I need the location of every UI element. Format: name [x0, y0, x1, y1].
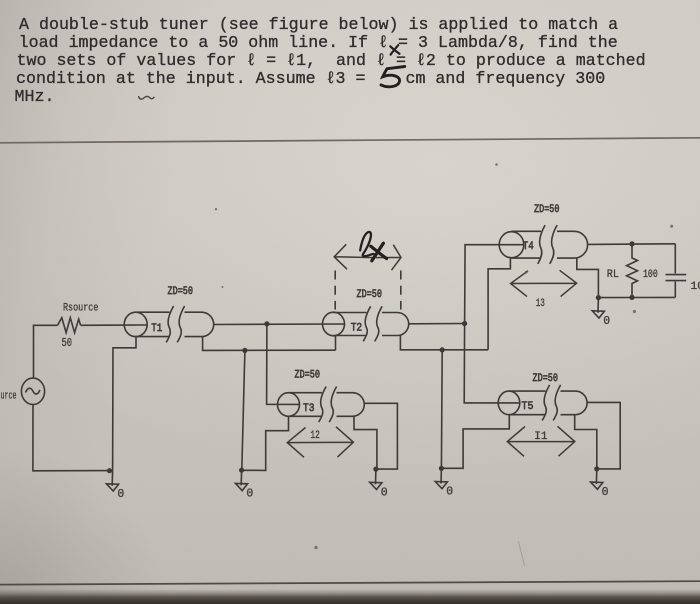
- svg-text:RL: RL: [607, 269, 619, 281]
- wire T4 to load: [588, 243, 676, 246]
- wire T3 ground lead bottom-left: [244, 416, 289, 470]
- dimension arrow l1: [507, 426, 575, 456]
- wire T2 ground lead bottom-right: [400, 335, 488, 350]
- wire T1 ground lead bottom-left: [113, 337, 136, 471]
- ac source Vsource: [21, 378, 44, 404]
- svg-text:ZD=50: ZD=50: [534, 204, 560, 216]
- wire T1 to T2: [214, 323, 345, 326]
- transmission line T4: [499, 225, 587, 264]
- wire T2 to node B: [409, 323, 465, 325]
- junction load bottom left: [596, 295, 601, 300]
- dimension arrow l3: [511, 270, 577, 296]
- node B junction: [462, 321, 467, 326]
- wire T3 ground lead bottom-right: [354, 416, 377, 469]
- wire node A down to T3: [267, 324, 300, 405]
- handwritten squiggle below line 4: [139, 96, 154, 99]
- dimension arrow l2: [287, 427, 353, 458]
- wire resistor to T1: [81, 324, 147, 326]
- handwritten subscript x in line 2: [390, 45, 399, 54]
- wire load bottom: [598, 296, 675, 298]
- svg-text:T2: T2: [351, 323, 363, 335]
- junction above ground G4: [440, 347, 445, 352]
- dashed extent line left of lx: [334, 271, 336, 310]
- dimension arrow lx right head: [376, 245, 401, 270]
- svg-text:ZD=50: ZD=50: [357, 289, 383, 301]
- junction at ground G3: [373, 467, 378, 472]
- svg-text:100: 100: [643, 269, 658, 281]
- junction at ground G5: [594, 466, 599, 471]
- svg-text:0: 0: [446, 486, 453, 499]
- transmission line T3: [278, 387, 365, 423]
- junction above ground G2: [242, 348, 247, 353]
- svg-text:T5: T5: [522, 401, 534, 413]
- wire T5 ground lead bottom-left: [441, 415, 509, 468]
- svg-text:ZD=50: ZD=50: [168, 286, 194, 298]
- ground G2: [235, 470, 253, 500]
- svg-text:0: 0: [602, 486, 609, 499]
- ground G6 under load: [592, 298, 610, 328]
- wire T5 ground lead bottom-right: [575, 415, 597, 469]
- wire down to ground G2: [242, 350, 245, 470]
- wire node B up to T4: [465, 245, 524, 324]
- dashed extent line right of lx: [400, 271, 402, 310]
- decorative specks omitted from labelling: [215, 208, 217, 210]
- ground G1: [106, 471, 124, 501]
- handwritten x of lx: [371, 243, 387, 261]
- resistor Rsource: [58, 318, 81, 333]
- wire node B down to T5: [464, 324, 519, 403]
- transmission line T1: [124, 306, 214, 342]
- paper sheet edge upper: [0, 138, 700, 143]
- wire T2 ground lead bottom-left: [335, 335, 337, 350]
- svg-text:urce: urce: [1, 391, 17, 403]
- svg-text:T3: T3: [303, 403, 315, 415]
- svg-text:I1: I1: [534, 431, 547, 443]
- wire source bottom return: [33, 404, 113, 470]
- transmission line T2: [323, 306, 409, 341]
- svg-text:0: 0: [381, 486, 388, 499]
- svg-text:Rsource: Rsource: [63, 303, 98, 315]
- svg-text:50: 50: [62, 337, 73, 350]
- photo grain: [0, 0, 1, 1]
- dimension arrow lx left head: [334, 244, 401, 270]
- handwritten 5 in line 4: [381, 67, 405, 87]
- svg-text:ZD=50: ZD=50: [295, 370, 321, 382]
- resistor RL: [627, 244, 638, 298]
- wire T4 ground lead bottom-left: [488, 258, 510, 350]
- svg-text:0: 0: [117, 488, 124, 501]
- wire down to ground G4: [440, 350, 443, 469]
- capacitor C load: [666, 244, 687, 298]
- wire source top to resistor: [34, 325, 58, 378]
- ground G4: [435, 468, 453, 498]
- wire T1 ground lead bottom-right: [203, 337, 336, 351]
- node A junction: [264, 321, 269, 326]
- paper sheet edge lower: [0, 581, 700, 584]
- svg-text:ZD=50: ZD=50: [533, 373, 559, 385]
- wire T3 shorted end: [364, 403, 397, 469]
- svg-text:T1: T1: [151, 323, 162, 335]
- ground G5: [591, 469, 609, 499]
- junction at RL top: [629, 241, 634, 246]
- handwritten script l of lx: [360, 232, 375, 256]
- junction at ground G4: [439, 466, 444, 471]
- svg-text:13: 13: [536, 298, 545, 310]
- junction at RL bottom: [629, 295, 634, 300]
- junction at ground G1: [107, 468, 112, 473]
- junction at ground G2: [239, 468, 244, 473]
- faint scratch: [519, 541, 525, 566]
- svg-text:0: 0: [246, 487, 253, 500]
- ground G3: [370, 469, 388, 499]
- transmission line T5: [498, 385, 587, 421]
- svg-text:0: 0: [603, 315, 610, 328]
- svg-text:12: 12: [310, 430, 319, 442]
- wire T5 shorted end: [587, 402, 620, 469]
- svg-text:10: 10: [691, 281, 700, 293]
- svg-text:T4: T4: [523, 241, 534, 253]
- wire T4 ground lead bottom-right: [577, 258, 599, 298]
